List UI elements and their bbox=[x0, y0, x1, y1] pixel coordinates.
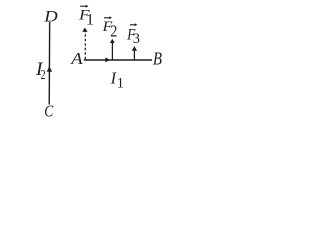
wire AB bbox=[84, 59, 152, 61]
svg-text:C: C bbox=[44, 101, 54, 120]
current arrow I2 on wire CD bbox=[47, 66, 52, 71]
wire CD bbox=[48, 22, 50, 105]
svg-text:B: B bbox=[153, 49, 162, 69]
svg-text:3: 3 bbox=[133, 31, 140, 47]
svg-text:2: 2 bbox=[110, 21, 117, 40]
svg-text:A: A bbox=[70, 49, 83, 68]
force vector F1 (dashed) bbox=[84, 31, 86, 59]
force vector F3 bbox=[133, 51, 135, 61]
svg-text:1: 1 bbox=[117, 76, 124, 92]
svg-text:1: 1 bbox=[86, 11, 94, 28]
svg-text:2: 2 bbox=[41, 68, 46, 83]
current arrow I1 on wire AB bbox=[105, 58, 110, 63]
force vector F2 bbox=[111, 43, 113, 60]
svg-text:D: D bbox=[43, 8, 58, 25]
